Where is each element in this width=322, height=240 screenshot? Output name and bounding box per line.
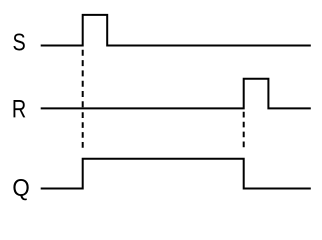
dashed line event2 (R edge to Q high): [243, 112, 245, 148]
label R: [14, 100, 26, 117]
label S: [13, 34, 24, 51]
dashed line event1 upper (S edge to R line): [82, 50, 84, 108]
Q waveform: low, high 82.7-243.7, low: [41, 159, 311, 189]
R waveform: low, pulse high 243.7-268.4, low: [41, 79, 311, 109]
S waveform: low, pulse high 82.7-107.2, low: [41, 15, 311, 46]
dashed line event1 lower (R line to Q high): [82, 112, 84, 149]
label Q: [13, 179, 28, 200]
